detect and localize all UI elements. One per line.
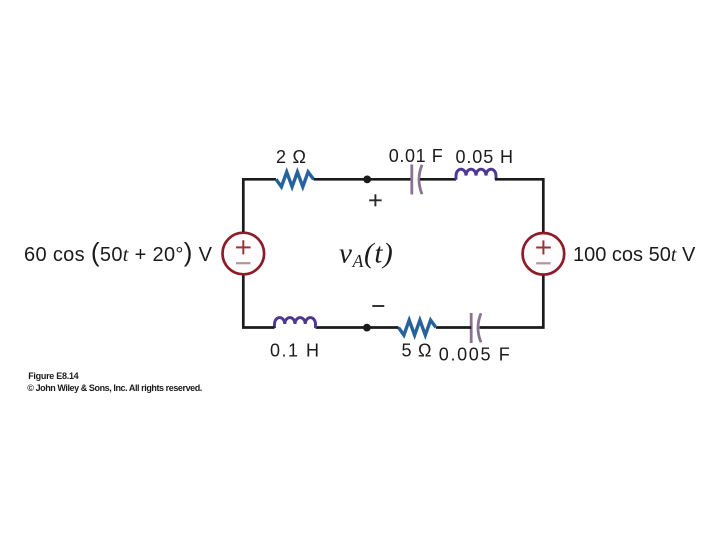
capacitor 0.005 F (bottom): curved right plate — [478, 313, 481, 342]
capacitor 0.01 F (top): left plate — [410, 165, 413, 195]
inductor 0.1 H (bottom) — [275, 318, 316, 328]
svg-text:60 cos (50t + 20°) V: 60 cos (50t + 20°) V — [24, 237, 213, 267]
capacitor 0.01 F (top): curved right plate — [419, 165, 422, 194]
svg-text:5 Ω: 5 Ω — [402, 341, 432, 361]
wire: inductor to top-right corner — [495, 179, 543, 232]
wire: right side lower (source to bottom-right corner) — [480, 276, 544, 328]
polarity plus (above vA) — [369, 194, 381, 206]
polarity minus (below vA) — [372, 305, 384, 307]
wire: resistor to capacitor (through node) — [314, 178, 412, 181]
node: bottom junction dot — [363, 324, 371, 332]
svg-text:Figure E8.14: Figure E8.14 — [28, 371, 78, 381]
wire: top-left corner to resistor — [243, 178, 276, 181]
svg-text:0.1 H: 0.1 H — [270, 341, 319, 361]
svg-text:0.01 F: 0.01 F — [389, 146, 443, 166]
voltage source right (100 cos 50t V): circle — [523, 233, 565, 275]
resistor 2 Ohm (top) — [276, 172, 314, 187]
svg-text:© John Wiley & Sons, Inc. All: © John Wiley & Sons, Inc. All rights res… — [27, 383, 202, 393]
voltage source left: minus sign — [236, 262, 250, 264]
voltage source right: plus sign — [536, 240, 551, 254]
voltage source right: minus sign — [536, 262, 550, 264]
svg-text:100 cos 50t V: 100 cos 50t V — [573, 244, 696, 266]
svg-text:vA(t): vA(t) — [339, 238, 393, 272]
inductor 0.05 H (top) — [456, 169, 496, 180]
resistor 5 Ohm (bottom) — [399, 320, 437, 335]
wire: capacitor to inductor — [420, 178, 456, 181]
wire: left side upper (top-left corner to source) — [243, 179, 245, 232]
node: top junction dot — [363, 176, 371, 184]
svg-text:2 Ω: 2 Ω — [276, 147, 306, 167]
voltage source left: plus sign — [236, 240, 251, 254]
wire: bottom capacitor to resistor — [436, 326, 471, 329]
svg-text:0.05 H: 0.05 H — [456, 147, 514, 167]
wire: bottom inductor to bottom-left corner — [242, 276, 275, 328]
capacitor 0.005 F (bottom): left plate — [470, 313, 473, 343]
wire: resistor to bottom node — [316, 326, 399, 329]
voltage source left (60 cos(50t+20°) V): circle — [223, 233, 265, 275]
svg-text:0.005 F: 0.005 F — [439, 345, 510, 365]
